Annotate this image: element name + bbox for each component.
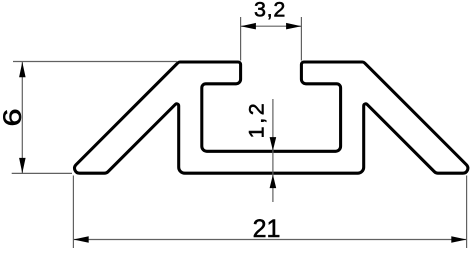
dim 6 extension line bottom bbox=[12, 172, 72, 174]
svg-text:1,2: 1,2 bbox=[244, 101, 268, 139]
svg-text:21: 21 bbox=[253, 215, 281, 243]
dim 3,2 extension line right bbox=[300, 17, 302, 61]
dim 21 arrowhead left bbox=[73, 236, 88, 243]
dim 3,2 extension line left bbox=[240, 17, 242, 61]
dim 1,2 arrowhead lower (points up to profile bottom) bbox=[270, 175, 277, 189]
dim 3,2 dimension line bbox=[241, 25, 302, 27]
dim 1,2 arrowhead upper (points down to channel floor) bbox=[270, 137, 277, 151]
svg-text:6: 6 bbox=[0, 108, 27, 126]
dim 1,2 dimension/leader line bbox=[272, 99, 274, 202]
profile outline (aluminium glazing-bead cross-section) bbox=[75, 62, 468, 173]
dim 21 extension line right bbox=[466, 176, 468, 249]
dim 6 dimension line bbox=[21, 62, 23, 173]
dim 6 arrowhead bottom bbox=[19, 158, 26, 173]
dim 21 extension line left bbox=[72, 176, 74, 249]
dim 6 extension line top bbox=[13, 61, 177, 63]
dim 6 arrowhead top bbox=[19, 62, 26, 77]
dim 3,2 arrowhead left bbox=[241, 23, 256, 30]
svg-text:3,2: 3,2 bbox=[254, 0, 286, 22]
dim 21 dimension line bbox=[73, 239, 466, 241]
dim 21 arrowhead right bbox=[451, 236, 466, 243]
dim 3,2 arrowhead right bbox=[286, 23, 301, 30]
